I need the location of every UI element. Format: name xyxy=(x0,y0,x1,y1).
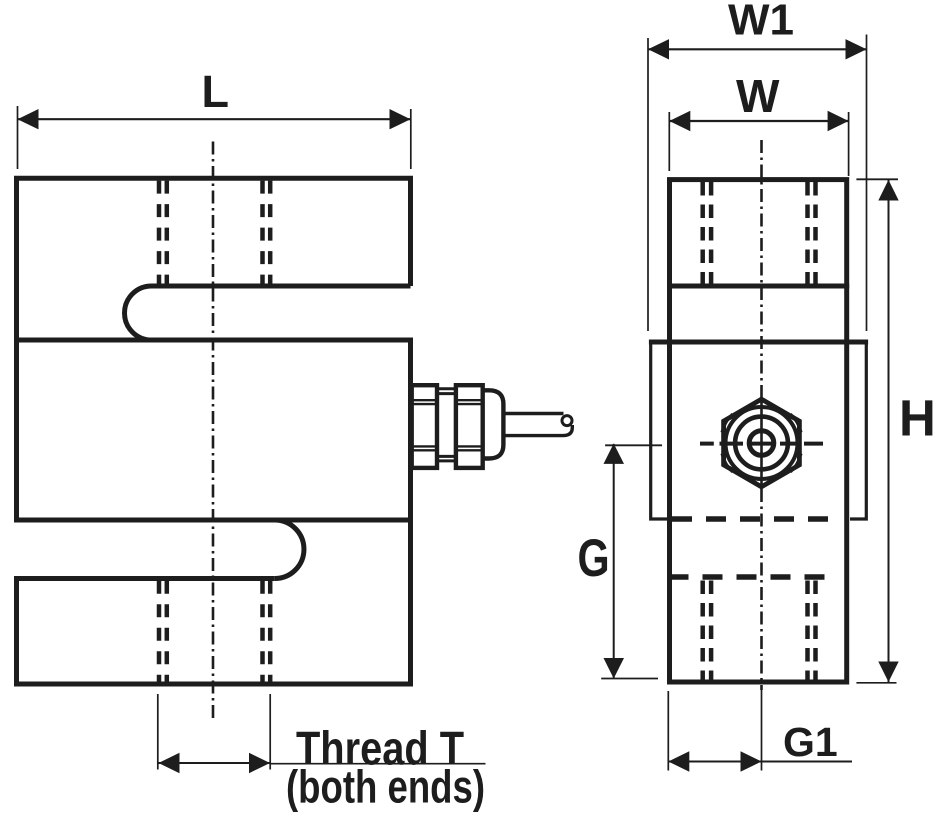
dimension G xyxy=(613,444,615,678)
right view narrow column xyxy=(670,180,847,682)
right view top boss bottom edge xyxy=(667,284,849,289)
nut outer circle xyxy=(726,407,798,479)
cable end loop xyxy=(562,416,572,426)
hex nut xyxy=(724,399,800,487)
cable xyxy=(503,412,563,415)
svg-text:G: G xyxy=(578,529,610,588)
leader line to Thread T label xyxy=(270,763,486,765)
svg-text:W1: W1 xyxy=(728,0,794,44)
thread hidden lines bottom boss xyxy=(159,581,270,682)
nut horizontal center mark xyxy=(700,442,823,446)
left view S-body outline xyxy=(17,178,411,520)
nut bore circle xyxy=(749,431,774,456)
left view vertical centerline xyxy=(212,142,215,720)
nut chamfer arcs xyxy=(791,414,802,432)
svg-text:W: W xyxy=(736,70,780,122)
dimension G1 xyxy=(668,761,852,763)
cable gland dome xyxy=(483,390,504,458)
dimension W1 xyxy=(648,48,867,50)
middle bar top edge xyxy=(14,338,413,343)
right view vertical centerline xyxy=(760,140,763,400)
wide section left edge xyxy=(651,342,667,519)
dimension Thread T xyxy=(159,762,271,764)
centerline extension for G1 xyxy=(761,690,763,771)
right view thread hidden lines bottom xyxy=(703,581,816,681)
hidden slot edge lower (dashed) xyxy=(669,574,834,580)
dimension W xyxy=(669,120,848,122)
svg-text:G1: G1 xyxy=(783,719,838,765)
cable gland nut 2 xyxy=(456,385,483,468)
thread hidden lines top boss xyxy=(159,181,270,284)
right view thread hidden lines top xyxy=(703,182,816,284)
upper slot top edge xyxy=(125,286,411,340)
lower slot cap xyxy=(275,520,304,579)
dimension H xyxy=(888,180,890,683)
cable gland neck xyxy=(437,387,456,390)
svg-text:L: L xyxy=(202,66,230,117)
right view wide section top edge xyxy=(649,340,868,345)
svg-text:H: H xyxy=(899,390,936,447)
wide section right edge xyxy=(850,342,866,519)
nut middle circle xyxy=(735,417,788,470)
svg-text:(both ends): (both ends) xyxy=(286,761,485,813)
middle bar bottom edge xyxy=(14,518,413,523)
hidden slot edge upper (dashed) xyxy=(672,516,833,522)
dimension L xyxy=(18,118,411,120)
cable gland nut 1 xyxy=(412,385,437,468)
lower slot bottom edge and bottom bar xyxy=(17,338,411,684)
